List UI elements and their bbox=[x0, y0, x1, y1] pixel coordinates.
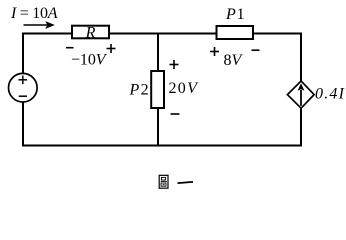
svg-text:R: R bbox=[85, 24, 96, 41]
svg-text:8V: 8V bbox=[224, 52, 244, 69]
svg-text:20V: 20V bbox=[169, 80, 200, 97]
svg-text:−10V: −10V bbox=[71, 52, 108, 69]
svg-text:P1: P1 bbox=[225, 6, 245, 23]
svg-text:I = 10A: I = 10A bbox=[10, 5, 58, 22]
svg-text:0.4I: 0.4I bbox=[315, 85, 345, 102]
svg-text:P2: P2 bbox=[129, 82, 150, 99]
